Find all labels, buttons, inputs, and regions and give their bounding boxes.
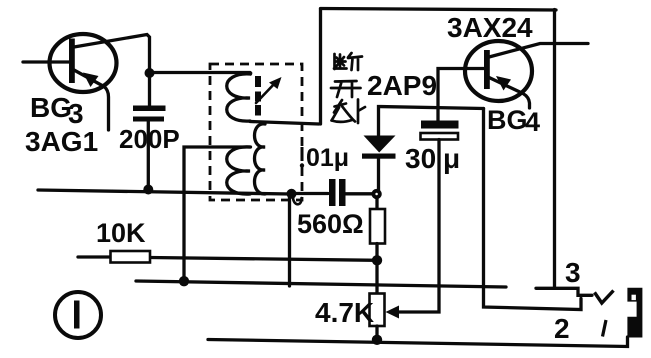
junction dot 560 bottom [372, 255, 382, 265]
potentiometer 4.7K bottom lead [375, 326, 378, 340]
node ring diode junction [373, 191, 379, 197]
diode 2AP9 cathode bar [362, 154, 396, 159]
transformer secondary winding [255, 124, 266, 194]
transistor BG4 base bar [484, 50, 490, 89]
capacitor 0.01u plates [329, 179, 336, 206]
BG4 collector arrow [496, 76, 511, 91]
wire terminal 2 branch [484, 109, 582, 310]
svg-text:01μ: 01μ [306, 144, 349, 172]
resistor 560 body [370, 209, 385, 244]
wire secondary bottom drop [288, 194, 291, 286]
svg-text:BG: BG [487, 105, 528, 135]
svg-text:BG: BG [30, 92, 72, 123]
wire bottom rail [208, 337, 628, 347]
svg-text:4.7K: 4.7K [315, 297, 374, 328]
label duan-kai-chu (break point) char 1 [334, 53, 362, 70]
svg-text:3: 3 [565, 257, 581, 288]
svg-text:10K: 10K [96, 218, 146, 248]
wire breakpoint riser [319, 9, 322, 124]
resistor 10K line [78, 257, 377, 260]
svg-text:4: 4 [525, 107, 540, 137]
diode 2AP9 top lead [379, 107, 484, 137]
wire bias line [136, 281, 506, 287]
potentiometer 4.7K body [370, 294, 385, 327]
resistor 10K body [111, 251, 151, 263]
svg-text:μ: μ [443, 143, 460, 174]
transistor BG3 base bar [69, 39, 75, 84]
jack plug body [627, 288, 642, 338]
wire secondary bottom hook [293, 197, 302, 204]
transistor BG4 circle [465, 41, 532, 101]
diode 2AP9 triangle [364, 136, 396, 153]
transformer primary upper winding [227, 74, 250, 121]
wire BG3 collector lead [74, 35, 150, 74]
junction dot bias line [179, 276, 189, 286]
BG3 emitter arrow [83, 73, 99, 88]
wire terminal 3 horizontal [536, 288, 592, 295]
svg-text:3AG1: 3AG1 [25, 126, 98, 157]
wire node to transformer primary top [150, 73, 251, 75]
capacitor C 200P bottom lead [147, 122, 150, 190]
label terminal 1 [603, 320, 607, 337]
jack plug notch [632, 295, 636, 300]
capacitor C 200P plates [133, 106, 166, 112]
capacitor C 200P top lead [148, 73, 151, 106]
capacitor 0.01u left lead [292, 192, 329, 195]
capacitor 30u bottom plate [421, 133, 459, 140]
svg-text:30: 30 [405, 143, 436, 174]
transformer core adjust arrow [256, 82, 276, 103]
wire right vertical to terminal 3 [553, 10, 556, 289]
wire BG4 base lead [438, 69, 484, 122]
capacitor 30u top plate [421, 121, 459, 129]
resistor 560 bottom lead [375, 244, 378, 261]
capacitor 0.01u right lead [346, 192, 373, 195]
svg-text:3: 3 [68, 98, 84, 129]
svg-text:560Ω: 560Ω [297, 209, 364, 239]
resistor 560 top lead [375, 198, 378, 209]
wire BG3 emitter lead [74, 70, 109, 130]
transformer primary lower winding [227, 147, 250, 194]
label duan-kai-chu char 3 [332, 100, 366, 124]
wire winding tap to lower junction [184, 147, 251, 281]
wire top rail [321, 9, 557, 11]
svg-text:200P: 200P [119, 124, 180, 154]
wire left rail [38, 190, 291, 194]
svg-text:2AP9: 2AP9 [367, 70, 437, 101]
wiper arrowhead [386, 306, 400, 319]
node A collector junction dot [145, 68, 155, 78]
wire BG4 collector lead [488, 77, 530, 108]
junction dot transformer secondary bottom [287, 189, 297, 199]
transformer core dashed bar [255, 76, 261, 116]
svg-text:2: 2 [554, 313, 570, 344]
diode 2AP9 bottom lead [377, 159, 380, 191]
label duan-kai-chu char 2 [331, 81, 361, 97]
junction dot 200P bottom [143, 185, 153, 195]
transformer shield dashed box [210, 64, 302, 200]
wire BG4 emitter lead [489, 44, 588, 58]
wire upper winding bottom to breakpoint riser [250, 122, 319, 125]
wire 30u bottom lead to wiper [390, 140, 439, 313]
wire BG3 base lead [23, 60, 69, 63]
potentiometer 4.7K top lead [375, 260, 378, 294]
symbol circled 1 [55, 292, 101, 338]
transistor BG3 circle [50, 34, 117, 92]
svg-text:3AX24: 3AX24 [447, 12, 533, 43]
junction dot pot bottom [372, 335, 382, 345]
label .01u [301, 147, 304, 161]
jack spring contact [595, 291, 614, 304]
